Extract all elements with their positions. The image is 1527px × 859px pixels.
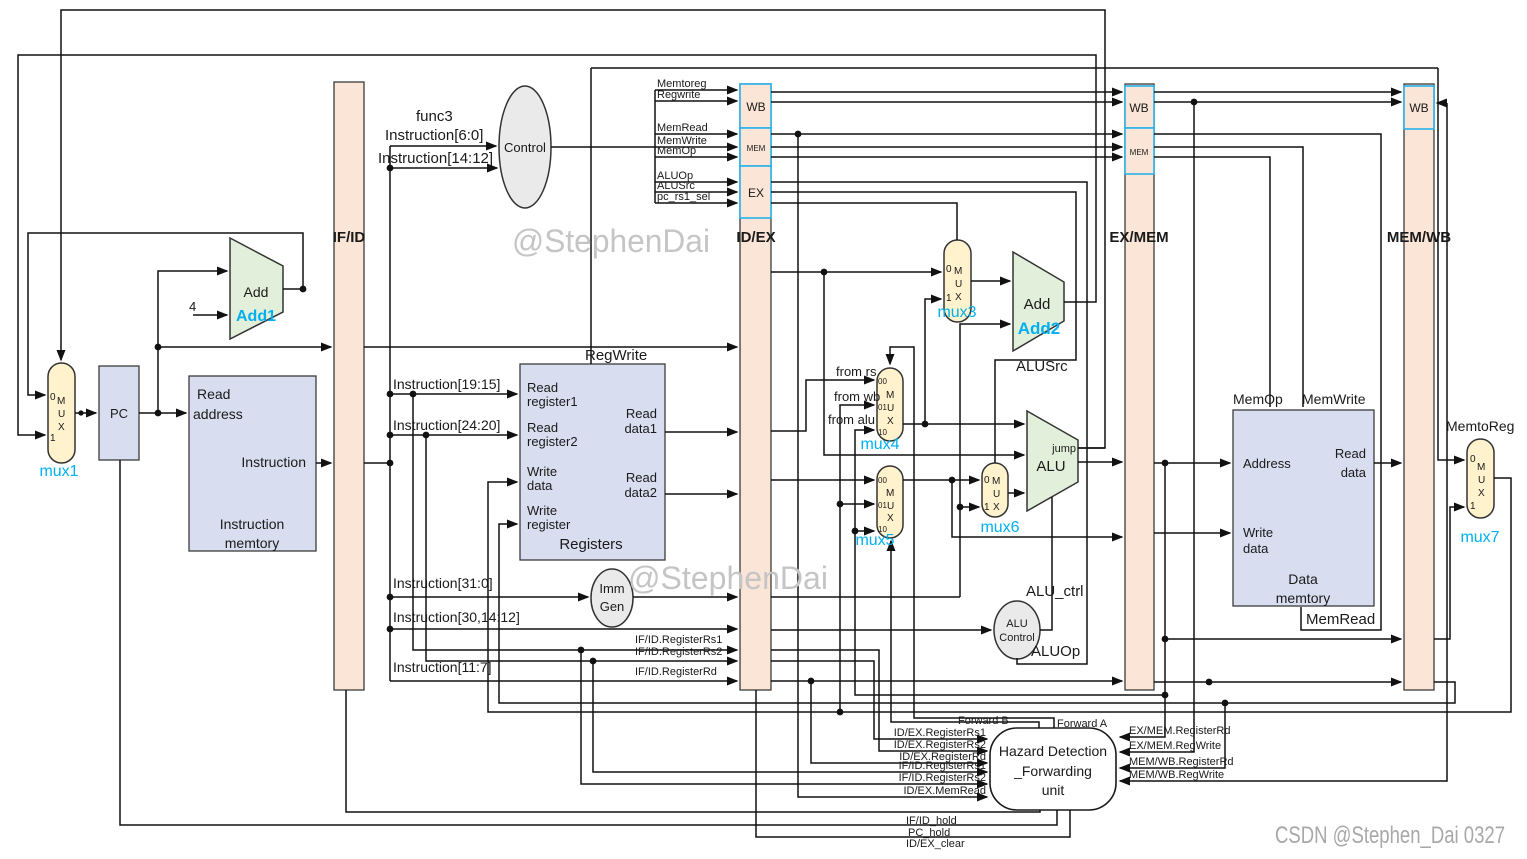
junction Read register1 branch: [410, 391, 417, 398]
ID/EX EX field: [740, 166, 771, 218]
MEM/WB WB field: [1404, 86, 1434, 129]
svg-text:Regwrite: Regwrite: [657, 89, 700, 101]
svg-text:Read: Read: [626, 406, 657, 421]
wire ALUOp into ID/EX EX: [655, 181, 737, 183]
junction store data branch: [949, 477, 956, 484]
svg-text:ID/EX.RegisterRs2: ID/EX.RegisterRs2: [894, 739, 986, 751]
svg-text:EX: EX: [748, 186, 764, 200]
svg-text:Control: Control: [999, 632, 1034, 644]
svg-text:Instruction[14:12]: Instruction[14:12]: [378, 150, 493, 167]
wire read data2 to mux5 input 00: [771, 479, 874, 481]
wire PC value to ALU middle input: [824, 272, 1024, 455]
adder Add1: [230, 238, 283, 339]
junction Rs1 to hazard: [578, 647, 585, 654]
wire mux6 output to ALU input B: [1008, 492, 1024, 494]
junction Instruction[24:20]: [387, 432, 394, 439]
svg-text:MemOp: MemOp: [1233, 391, 1283, 407]
svg-text:func3: func3: [416, 108, 453, 125]
mux4: [877, 368, 903, 441]
svg-text:@StephenDai: @StephenDai: [628, 560, 828, 596]
wire Forward B to mux5: [891, 541, 1039, 728]
junction wb data to muxes: [837, 709, 844, 716]
wire Read data to MEM/WB: [1374, 462, 1401, 464]
svg-text:WB: WB: [1409, 101, 1428, 115]
svg-text:M: M: [886, 488, 894, 499]
svg-text:IF/ID.RegisterRs1: IF/ID.RegisterRs1: [899, 760, 986, 772]
junction MEM/WB.RegisterRd to hazard: [1222, 700, 1229, 707]
svg-text:Instruction: Instruction: [220, 516, 285, 532]
wire PC up branch: [158, 271, 227, 413]
wire RegisterRd ID/EX to EX/MEM: [771, 680, 1122, 682]
svg-text:Data: Data: [1288, 571, 1318, 587]
wire RegWrite top rail: [591, 67, 1438, 69]
junction from alu feedback: [1162, 692, 1169, 699]
junction instruction bus: [387, 460, 394, 467]
Hazard Detection Forwarding unit: [990, 728, 1116, 810]
wire ALU result to EX/MEM: [1078, 461, 1122, 463]
junction imm to mux6: [957, 504, 964, 511]
svg-text:X: X: [58, 422, 65, 433]
wire ID/EX MEM to EX/MEM MemRead: [771, 133, 1122, 135]
wire IF/ID.RegisterRs1 to ID/EX: [413, 394, 737, 650]
wire ALU result EX/MEM to Address: [1154, 462, 1230, 464]
wire Regwrite into ID/EX WB: [655, 100, 737, 102]
wire jump loop ALU to mux1 top: [61, 10, 1105, 448]
mux6: [982, 463, 1008, 517]
pipeline register MEM/WB: [1404, 84, 1434, 690]
junction PC branch: [155, 344, 162, 351]
svg-text:U: U: [887, 403, 894, 414]
svg-text:M: M: [954, 266, 962, 277]
wire ID/EX.RegisterRd to hazard unit: [811, 681, 987, 763]
svg-text:unit: unit: [1042, 782, 1065, 798]
svg-text:0: 0: [946, 264, 952, 275]
junction mux1 output: [78, 410, 83, 415]
svg-text:Add: Add: [244, 284, 269, 300]
EX/MEM WB field: [1125, 86, 1154, 128]
svg-text:mux5: mux5: [855, 532, 894, 549]
wire PC value into IF/ID: [158, 346, 331, 348]
svg-text:PC: PC: [110, 406, 128, 421]
wire control label rail: [654, 90, 656, 203]
svg-text:1: 1: [1470, 501, 1476, 512]
svg-text:00: 00: [878, 377, 887, 386]
wire pc_rs1_sel into ID/EX EX: [655, 202, 737, 204]
wire EX/MEM.RegisterRd to hazard unit: [1120, 463, 1165, 737]
svg-text:M: M: [1477, 462, 1485, 473]
wire mux4 output up to mux3 input 1: [925, 299, 941, 424]
svg-text:Forward B: Forward B: [958, 715, 1009, 727]
svg-text:mux6: mux6: [980, 519, 1019, 536]
junction ID/EX.MemRead: [795, 131, 802, 138]
wire IF/ID_hold: [346, 690, 1040, 812]
wire Instruction[30,14:12] to ID/EX: [390, 628, 737, 630]
svg-text:ALUOp: ALUOp: [1031, 643, 1080, 660]
wire from wb to mux5 input 01: [840, 503, 874, 505]
mux7: [1467, 439, 1494, 518]
svg-text:Instruction[31:0]: Instruction[31:0]: [393, 575, 493, 591]
wire imm vertical rail: [960, 324, 1010, 597]
svg-text:EX/MEM.RegWrite: EX/MEM.RegWrite: [1129, 740, 1221, 752]
pipeline register IF/ID: [334, 82, 364, 690]
wire store data to EX/MEM: [952, 480, 1122, 537]
wire Read data1 to ID/EX: [665, 431, 737, 433]
EX/MEM MEM field: [1125, 128, 1154, 174]
junction from alu to mux5: [852, 528, 859, 535]
wire EX/MEM.RegWrite to hazard unit: [1120, 102, 1194, 752]
svg-text:ID/EX_clear: ID/EX_clear: [906, 838, 965, 850]
wire IF/ID.RegisterRs1 to hazard unit: [581, 650, 987, 784]
svg-text:IF/ID.RegisterRd: IF/ID.RegisterRd: [635, 666, 717, 678]
wire Instruction[19:15] to Read register1: [390, 393, 517, 395]
Control unit: [499, 86, 551, 208]
wire PC value to mux3 input 0: [771, 271, 941, 273]
wire instruction bus vertical: [389, 146, 391, 681]
svg-text:data: data: [527, 478, 553, 493]
svg-text:CSDN @Stephen_Dai 0327: CSDN @Stephen_Dai 0327: [1275, 822, 1505, 849]
svg-text:00: 00: [878, 476, 887, 485]
ALU Control: [994, 601, 1040, 659]
svg-text:M: M: [992, 476, 1000, 487]
wire from alu rail: [855, 430, 1165, 695]
wire Imm Gen to ID/EX: [633, 596, 737, 598]
wire mux3 output to Add2: [971, 280, 1010, 282]
svg-text:X: X: [955, 292, 962, 303]
svg-text:Registers: Registers: [559, 536, 622, 553]
wire Instruction[31:0] to Imm Gen: [390, 596, 588, 598]
svg-text:WB: WB: [746, 100, 765, 114]
wire IF/ID.RegisterRs2 to ID/EX: [426, 435, 737, 661]
wire ALUOp to ALU Control: [771, 182, 1087, 664]
ID/EX MEM field: [740, 128, 771, 166]
svg-text:memtory: memtory: [225, 535, 279, 551]
wire RegWrite down to Registers: [590, 68, 592, 364]
wire ALUSrc to mux6: [771, 192, 1076, 463]
svg-text:0: 0: [50, 392, 56, 403]
wire Memtoreg into ID/EX WB: [655, 89, 737, 91]
svg-text:Add2: Add2: [1018, 319, 1061, 338]
junction Instruction[31:0]: [387, 594, 394, 601]
svg-text:ALUSrc: ALUSrc: [1016, 358, 1068, 375]
svg-text:Read: Read: [197, 386, 230, 402]
wire EX/MEM WB to MEM/WB 2: [1154, 101, 1401, 103]
svg-text:EX/MEM: EX/MEM: [1109, 229, 1168, 246]
wire Instruction[14:12] to Control: [390, 167, 497, 169]
svg-text:MemRead: MemRead: [1306, 611, 1375, 628]
wire ID/EX WB to EX/MEM 1: [771, 91, 1122, 93]
wire MemOp into ID/EX MEM: [655, 156, 737, 158]
svg-text:register2: register2: [527, 434, 578, 449]
Data memory box: [1233, 410, 1374, 606]
wire Instruction[24:20] to Read register2: [390, 434, 517, 436]
svg-text:Read: Read: [1335, 446, 1366, 461]
svg-text:IF/ID.RegisterRs1: IF/ID.RegisterRs1: [635, 634, 722, 646]
mux5: [877, 466, 903, 538]
wire pc_rs1_sel to mux3: [771, 203, 957, 240]
junction EX/MEM ALU result: [1162, 460, 1169, 467]
pipeline register ID/EX: [740, 84, 771, 690]
svg-text:address: address: [193, 406, 243, 422]
junction ALU result to MEM/WB: [1162, 636, 1169, 643]
wire Forward A to mux4: [890, 347, 1054, 728]
svg-text:IF/ID: IF/ID: [333, 229, 366, 246]
svg-text:mux4: mux4: [860, 436, 899, 453]
svg-text:@StephenDai: @StephenDai: [512, 223, 710, 259]
Instruction memory box: [189, 376, 316, 551]
svg-text:EX/MEM.RegisterRd: EX/MEM.RegisterRd: [1129, 725, 1230, 737]
wire from alu to mux5 input 10: [855, 530, 874, 532]
wire ALUOp value to ALU Control: [771, 629, 991, 631]
svg-text:data: data: [1243, 541, 1269, 556]
wire EX/MEM MemWrite to Data memory: [1154, 147, 1303, 407]
junction Instruction[19:15]: [387, 391, 394, 398]
wire ALU result to MEM/WB: [1165, 638, 1401, 640]
wire ID/EX WB to EX/MEM 2: [771, 101, 1122, 103]
svg-text:0: 0: [984, 475, 990, 486]
wire MemRead into ID/EX MEM: [655, 133, 737, 135]
wire from wb rail: [840, 405, 874, 712]
svg-text:U: U: [993, 489, 1000, 500]
wire imm to mux6 input 1: [960, 506, 979, 508]
Imm Gen: [591, 569, 633, 627]
svg-text:X: X: [1478, 488, 1485, 499]
svg-text:Instruction[30,14:12]: Instruction[30,14:12]: [393, 609, 520, 625]
svg-text:MemWrite: MemWrite: [1302, 391, 1366, 407]
svg-text:MemtoReg: MemtoReg: [1446, 418, 1514, 434]
wire mux1 to PC: [75, 412, 96, 414]
svg-text:Hazard Detection: Hazard Detection: [999, 743, 1107, 759]
svg-text:1: 1: [50, 433, 56, 444]
svg-text:ID/EX.MemRead: ID/EX.MemRead: [903, 785, 986, 797]
svg-text:MEM/WB: MEM/WB: [1387, 229, 1451, 246]
svg-text:4: 4: [189, 299, 196, 314]
svg-text:X: X: [993, 502, 1000, 513]
svg-text:IF/ID_hold: IF/ID_hold: [906, 815, 957, 827]
svg-text:Imm: Imm: [599, 581, 624, 596]
svg-text:data: data: [1341, 465, 1367, 480]
svg-text:from alu: from alu: [828, 412, 875, 427]
wire Control output: [551, 146, 655, 148]
svg-text:MemOp: MemOp: [657, 145, 696, 157]
svg-text:jump: jump: [1051, 443, 1076, 455]
wire EX/MEM MemRead loop to Data memory: [1154, 134, 1381, 630]
svg-text:Instruction[11:7]: Instruction[11:7]: [393, 659, 492, 675]
wire constant 4 into Add1: [193, 314, 227, 316]
svg-text:Instruction[24:20]: Instruction[24:20]: [393, 417, 500, 433]
svg-text:ALU: ALU: [1006, 618, 1027, 630]
register PC: [99, 366, 139, 460]
junction Rs2 to hazard: [590, 658, 597, 665]
svg-text:0: 0: [1470, 454, 1476, 465]
wire ID/EX MEM to EX/MEM MemOp: [771, 156, 1122, 158]
svg-text:1: 1: [946, 293, 952, 304]
svg-text:from rs: from rs: [836, 364, 877, 379]
svg-text:1: 1: [984, 502, 990, 513]
svg-text:register: register: [527, 517, 571, 532]
svg-text:Address: Address: [1243, 456, 1291, 471]
svg-text:U: U: [887, 501, 894, 512]
wire imm to Add2 rail: [771, 596, 960, 598]
junction Instruction[14:12]: [387, 165, 394, 172]
wire MEM/WB.RegisterRd to hazard unit: [1120, 703, 1225, 768]
svg-text:mux1: mux1: [39, 463, 78, 480]
svg-text:IF/ID.RegisterRs2: IF/ID.RegisterRs2: [635, 646, 722, 658]
svg-text:Read: Read: [527, 380, 558, 395]
wire PC+4 Add1 to mux1 input 0: [28, 233, 303, 395]
wire ID/EX.MemRead to hazard unit: [798, 134, 987, 797]
wire from rs to mux4 input 00: [771, 380, 874, 431]
wire MEM/WB WB right arrow: [1437, 102, 1447, 104]
wire instruction bus stem: [364, 462, 390, 464]
pipeline register EX/MEM: [1125, 84, 1154, 690]
wire MemWrite into ID/EX MEM: [655, 146, 737, 148]
svg-text:Write: Write: [1243, 525, 1273, 540]
wire ID/EX.RegisterRs1 right to hazard: [771, 650, 987, 751]
svg-text:U: U: [58, 409, 65, 420]
wire RegisterRd EX/MEM to MEM/WB: [1154, 681, 1401, 683]
svg-text:pc_rs1_sel: pc_rs1_sel: [657, 191, 710, 203]
svg-text:data1: data1: [624, 421, 657, 436]
svg-text:Instruction[19:15]: Instruction[19:15]: [393, 376, 500, 392]
wire EX/MEM WB to MEM/WB 1: [1154, 91, 1401, 93]
svg-text:MEM: MEM: [747, 144, 766, 153]
svg-text:Read: Read: [527, 420, 558, 435]
svg-text:ALU_ctrl: ALU_ctrl: [1026, 583, 1084, 600]
svg-text:Read: Read: [626, 470, 657, 485]
wire mux7 output to Write data: [488, 478, 1511, 712]
svg-text:ID/EX.RegisterRs1: ID/EX.RegisterRs1: [894, 727, 986, 739]
junction mux4 output: [922, 421, 929, 428]
svg-text:data2: data2: [624, 485, 657, 500]
svg-text:Forward A: Forward A: [1057, 718, 1108, 730]
svg-text:mux7: mux7: [1460, 529, 1499, 546]
svg-text:RegWrite: RegWrite: [585, 347, 647, 364]
svg-text:MEM/WB.RegWrite: MEM/WB.RegWrite: [1129, 769, 1224, 781]
wire PC to Read address: [139, 412, 186, 414]
wire Instruction[6:0] to Control: [390, 145, 496, 147]
wire MEM/WB read data to mux7 input 1: [1434, 507, 1464, 639]
Registers box: [520, 364, 665, 560]
wire PC through IF/ID to ID/EX: [364, 346, 737, 348]
wire Instruction into IF/ID: [316, 462, 331, 464]
wire ID/EX_clear: [756, 690, 1070, 837]
wire EX/MEM MemOp to Data memory: [1154, 157, 1270, 407]
adder Add2: [1013, 252, 1064, 351]
svg-text:MemRead: MemRead: [657, 122, 708, 134]
wire ALUSrc into ID/EX EX: [655, 191, 737, 193]
svg-text:Gen: Gen: [600, 599, 625, 614]
svg-text:memtory: memtory: [1276, 590, 1330, 606]
junction Read register2 branch: [423, 432, 430, 439]
junction Add1 output: [300, 286, 307, 293]
wire ID/EX MEM to EX/MEM MemWrite: [771, 146, 1122, 148]
svg-text:X: X: [887, 416, 894, 427]
mux3: [944, 240, 971, 322]
svg-text:M: M: [886, 390, 894, 401]
wire PC_hold: [120, 460, 1057, 825]
svg-text:U: U: [1478, 475, 1485, 486]
wire mux4 output to ALU input A: [903, 423, 1024, 425]
svg-text:Write: Write: [527, 464, 557, 479]
svg-text:Instruction[6:0]: Instruction[6:0]: [385, 127, 483, 144]
svg-text:M: M: [57, 396, 65, 407]
wire mux5 output to mux6 input 0: [903, 479, 979, 481]
wire MEM/WB.RegisterRd to Write register: [499, 524, 1455, 703]
mux1: [48, 363, 75, 463]
wire branch target Add2 to mux1 input 1: [18, 55, 1096, 435]
svg-text:_Forwarding: _Forwarding: [1013, 763, 1092, 779]
svg-text:from wb: from wb: [834, 389, 880, 404]
svg-text:MEM: MEM: [1130, 148, 1149, 157]
svg-text:mux3: mux3: [937, 304, 976, 321]
wire Instruction[11:7] IF/ID.RegisterRd to ID/EX: [390, 680, 737, 682]
junction RegisterRd MEM/WB: [1206, 679, 1213, 686]
junction PC value: [821, 269, 828, 276]
svg-text:X: X: [887, 513, 894, 524]
svg-text:WB: WB: [1129, 101, 1148, 115]
wire WB rail down to mux7 input 0: [1438, 68, 1464, 460]
wire MEM/WB.RegWrite to hazard unit: [1120, 103, 1447, 781]
svg-text:register1: register1: [527, 394, 578, 409]
svg-text:MEM/WB.RegisterRd: MEM/WB.RegisterRd: [1129, 756, 1234, 768]
junction Instruction[30,14:12]: [387, 626, 394, 633]
junction EX/MEM.RegWrite: [1191, 99, 1198, 106]
junction RegisterRd to hazard: [808, 678, 815, 685]
ID/EX WB field: [740, 84, 771, 128]
wire ID/EX.RegisterRs2 right to hazard: [771, 661, 987, 739]
svg-text:Control: Control: [504, 140, 546, 155]
svg-text:Add1: Add1: [236, 308, 276, 325]
junction PC output: [155, 410, 162, 417]
svg-text:Write: Write: [527, 503, 557, 518]
junction from wb to mux5: [837, 501, 844, 508]
svg-text:IF/ID.RegisterRs2: IF/ID.RegisterRs2: [899, 772, 986, 784]
wire IF/ID.RegisterRs2 to hazard unit: [593, 661, 987, 772]
svg-text:ID/EX: ID/EX: [736, 229, 775, 246]
wire ALU jump output: [1078, 447, 1105, 449]
svg-text:Instruction: Instruction: [241, 454, 306, 470]
wire store data EX/MEM to Write data: [1154, 532, 1230, 534]
svg-text:Add: Add: [1024, 296, 1051, 313]
ALU: [1027, 411, 1078, 511]
wire Read data2 to ID/EX: [665, 493, 737, 495]
wire ALU Control to ALU: [1040, 497, 1052, 630]
svg-text:ALU: ALU: [1036, 458, 1065, 475]
svg-text:U: U: [955, 279, 962, 290]
